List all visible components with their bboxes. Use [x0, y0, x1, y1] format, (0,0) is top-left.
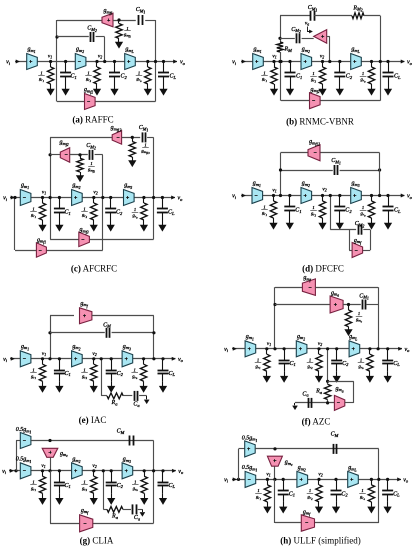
- svg-text:C2: C2: [117, 371, 124, 377]
- svg-text:C1: C1: [295, 208, 301, 214]
- svg-text:vo: vo: [403, 477, 409, 483]
- svg-text:1: 1: [83, 480, 85, 485]
- svg-text:RM: RM: [284, 47, 293, 53]
- svg-text:C2: C2: [121, 74, 128, 80]
- svg-text:1: 1: [90, 161, 92, 166]
- svg-text:Ca: Ca: [133, 402, 140, 408]
- svg-text:(h) ULLF (simplified): (h) ULLF (simplified): [280, 536, 361, 546]
- svg-text:CL: CL: [393, 491, 400, 497]
- svg-text:C2: C2: [345, 208, 352, 214]
- svg-text:1: 1: [309, 358, 311, 363]
- svg-text:C2: C2: [342, 361, 349, 367]
- svg-text:1: 1: [134, 207, 136, 212]
- svg-text:1: 1: [312, 205, 314, 210]
- svg-text:1: 1: [126, 26, 128, 31]
- svg-text:Ca: Ca: [302, 391, 309, 397]
- svg-text:1: 1: [87, 70, 89, 75]
- svg-text:vo: vo: [178, 357, 184, 363]
- svg-text:CL: CL: [170, 74, 177, 80]
- svg-text:CL: CL: [393, 361, 400, 367]
- svg-text:1: 1: [134, 480, 136, 485]
- svg-text:C1: C1: [296, 74, 302, 80]
- svg-text:1: 1: [144, 142, 146, 147]
- svg-text:C2: C2: [117, 483, 124, 489]
- svg-text:Ca: Ca: [134, 515, 141, 521]
- svg-text:C1: C1: [290, 361, 296, 367]
- svg-text:1: 1: [263, 204, 265, 209]
- svg-text:1: 1: [83, 206, 85, 211]
- svg-text:1: 1: [361, 488, 363, 493]
- svg-text:C1: C1: [65, 371, 71, 377]
- svg-text:C1: C1: [289, 491, 295, 497]
- svg-text:C1: C1: [65, 210, 71, 216]
- svg-text:1: 1: [362, 205, 364, 210]
- svg-text:1: 1: [257, 488, 259, 493]
- svg-text:1: 1: [138, 70, 140, 75]
- svg-text:1: 1: [257, 358, 259, 363]
- svg-text:Ra: Ra: [111, 400, 119, 406]
- svg-text:vo: vo: [180, 60, 186, 66]
- svg-text:CM: CM: [103, 322, 111, 328]
- svg-text:CL: CL: [169, 371, 176, 377]
- svg-text:C2: C2: [341, 491, 348, 497]
- svg-text:1: 1: [358, 311, 360, 316]
- svg-text:Ra: Ra: [111, 514, 119, 520]
- svg-text:vo: vo: [178, 196, 184, 202]
- svg-text:1: 1: [32, 206, 34, 211]
- svg-text:CM: CM: [331, 432, 339, 438]
- svg-text:vo: vo: [407, 194, 412, 200]
- svg-text:CM: CM: [117, 429, 125, 435]
- svg-text:1: 1: [362, 71, 364, 76]
- svg-text:1: 1: [32, 480, 34, 485]
- svg-text:(c) AFCRFC: (c) AFCRFC: [71, 264, 117, 274]
- svg-text:vo: vo: [178, 469, 184, 475]
- svg-text:(g) CLIA: (g) CLIA: [80, 536, 114, 546]
- svg-text:C1: C1: [71, 74, 77, 80]
- svg-text:1: 1: [83, 368, 85, 373]
- svg-text:CL: CL: [394, 74, 401, 80]
- svg-text:C1: C1: [65, 483, 71, 489]
- svg-text:(f) AZC: (f) AZC: [302, 417, 331, 427]
- svg-text:1: 1: [312, 71, 314, 76]
- svg-text:C2: C2: [116, 210, 123, 216]
- svg-text:1: 1: [263, 70, 265, 75]
- svg-text:vo: vo: [405, 347, 411, 353]
- svg-text:1: 1: [309, 488, 311, 493]
- svg-text:Ra: Ra: [315, 389, 323, 395]
- svg-text:(d) DFCFC: (d) DFCFC: [302, 264, 344, 274]
- svg-text:(b) RNMC-VBNR: (b) RNMC-VBNR: [286, 117, 354, 127]
- svg-text:(a) RAFFC: (a) RAFFC: [72, 115, 113, 125]
- svg-text:CL: CL: [168, 210, 175, 216]
- svg-text:CL: CL: [394, 208, 401, 214]
- svg-text:(e) IAC: (e) IAC: [79, 415, 107, 425]
- svg-text:1: 1: [40, 70, 42, 75]
- svg-text:C2: C2: [346, 74, 353, 80]
- svg-text:vo: vo: [407, 60, 412, 66]
- svg-text:CL: CL: [169, 483, 176, 489]
- svg-text:1: 1: [32, 368, 34, 373]
- svg-text:1: 1: [360, 358, 362, 363]
- svg-text:1: 1: [134, 368, 136, 373]
